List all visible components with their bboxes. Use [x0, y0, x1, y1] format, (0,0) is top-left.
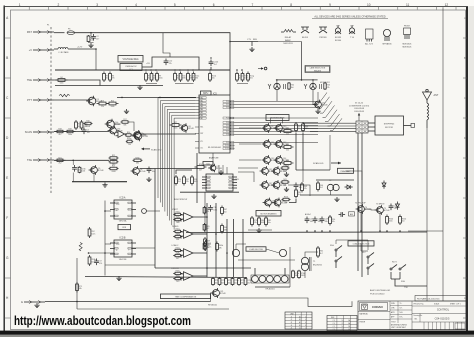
svg-text:11: 11 — [406, 3, 410, 7]
resistor R25b — [133, 157, 143, 164]
transistor Q14 — [274, 155, 289, 165]
wire sheet vertical A — [442, 7, 444, 301]
svg-text:47k: 47k — [327, 87, 330, 89]
wire conv feed 2 — [303, 125, 356, 127]
label box motor braking — [256, 211, 281, 217]
resistor R22b — [109, 159, 119, 166]
svg-text:A B A C: A B A C — [305, 213, 312, 216]
bias box — [349, 212, 355, 216]
svg-text:4: 4 — [305, 319, 306, 321]
resistor R11g — [247, 72, 254, 83]
wire relay feed vertical — [301, 42, 303, 80]
svg-text:S1C: S1C — [362, 252, 366, 254]
wire ic2 wiring2 — [105, 210, 111, 212]
transistor Q17b — [263, 198, 278, 208]
wire bottom long wire — [238, 259, 295, 261]
svg-text:SBL: SBL — [200, 127, 203, 129]
transistor T5 — [375, 205, 390, 215]
wire res bank bottom tie2 — [175, 83, 194, 85]
relay feed dots — [276, 79, 278, 81]
wire conv to stepper 1 — [368, 122, 375, 124]
wire antenna feed vertical — [426, 128, 428, 301]
resistor R5 — [103, 72, 109, 83]
svg-text:2k2: 2k2 — [59, 163, 62, 165]
resistor R33 — [324, 82, 330, 90]
resistor R14 — [107, 100, 119, 108]
svg-text:47k: 47k — [304, 188, 307, 190]
svg-text:BC640: BC640 — [335, 40, 342, 42]
ground G1 — [88, 43, 93, 48]
wire rf wires2 — [284, 268, 286, 275]
wire peak rail bot — [300, 194, 352, 196]
svg-text:LOADC: LOADC — [172, 244, 179, 247]
label box voltage reg — [118, 56, 143, 63]
svg-text:2k2: 2k2 — [214, 64, 217, 66]
wire conv feed 3 — [303, 128, 356, 130]
svg-text:UNIT 9 B/DIP ANT: UNIT 9 B/DIP ANT — [391, 326, 407, 329]
wire rf wires — [254, 268, 256, 275]
resistor R70 — [212, 277, 218, 285]
op-amp U2c — [181, 249, 196, 258]
resistor R36 — [282, 160, 294, 168]
svg-text:R60a: R60a — [176, 212, 180, 214]
svg-text:ASSY/STAT W: ASSY/STAT W — [174, 198, 187, 201]
resistor R46 — [317, 181, 323, 192]
wire relay A drop up — [276, 80, 278, 83]
wire vreg feed vert — [163, 33, 170, 57]
svg-text:T5 BF459: T5 BF459 — [376, 204, 384, 206]
relay RL1 cap — [283, 84, 285, 89]
lane selection relays box — [305, 66, 330, 73]
svg-text:MJE350/1: MJE350/1 — [402, 47, 412, 49]
svg-text:R13: R13 — [101, 100, 104, 102]
svg-text:CONTROL: CONTROL — [437, 309, 450, 312]
wire lower run — [77, 308, 229, 310]
wire +V row — [54, 48, 58, 50]
svg-text:1k0: 1k0 — [234, 282, 237, 284]
svg-text:330R: 330R — [301, 275, 306, 277]
wire SCAN row — [54, 131, 109, 133]
IC U5 MPU body — [195, 95, 235, 153]
svg-text:R61a: R61a — [176, 229, 180, 231]
transistor Q8 — [179, 123, 193, 132]
svg-text:R21: R21 — [58, 157, 61, 159]
op-amp U2a — [181, 213, 196, 222]
svg-text:R18: R18 — [58, 129, 61, 131]
svg-text:100k: 100k — [261, 222, 265, 224]
label box compensation — [161, 294, 211, 299]
diode D9 — [396, 202, 400, 210]
wire conv to stepper 3 — [368, 130, 375, 132]
connector boundary dashed line — [50, 27, 52, 193]
terminal SCAN (P5) — [25, 130, 54, 134]
wire relay A drop — [276, 90, 278, 101]
IC5 tag — [201, 91, 212, 95]
svg-text:RF-B0001: RF-B0001 — [265, 289, 275, 291]
svg-text:J4: J4 — [290, 325, 292, 327]
resistor R69 — [204, 237, 212, 247]
svg-text:A06: A06 — [350, 213, 353, 216]
transistor Q21 — [211, 288, 226, 298]
terminal PTT (P4) — [27, 98, 54, 102]
resistor R10 — [174, 72, 180, 83]
wire TXE row — [54, 159, 109, 161]
svg-text:100n: 100n — [91, 233, 95, 235]
transistor Q4c — [132, 131, 148, 142]
resistor R61a — [173, 229, 182, 236]
ground G5 — [218, 170, 223, 175]
wire ic3 top wires — [176, 170, 192, 174]
wire lower bus — [186, 231, 427, 234]
svg-text:START: START — [172, 208, 179, 211]
wire RST row — [54, 32, 65, 34]
svg-text:LOAD DETECTION: LOAD DETECTION — [353, 242, 370, 245]
wire braking wires — [289, 199, 296, 203]
svg-text:RLY3: RLY3 — [392, 262, 397, 264]
wire motor link 1 — [270, 118, 282, 123]
resistor R65 — [203, 223, 209, 232]
transistor Q12 — [274, 139, 289, 149]
svg-text:6: 6 — [305, 322, 306, 324]
assy text — [370, 289, 391, 296]
ground G6 — [249, 47, 254, 52]
resistor R19 — [65, 129, 76, 136]
svg-text:LANE SELECTION: LANE SELECTION — [310, 67, 326, 70]
svg-text:330R: 330R — [207, 243, 212, 245]
svg-text:R19: R19 — [68, 129, 71, 131]
svg-text:R17: R17 — [123, 119, 126, 121]
svg-text:10k: 10k — [285, 202, 288, 204]
svg-text:PEAK AMP: PEAK AMP — [340, 170, 351, 173]
wire motor base 1 — [239, 127, 261, 129]
converter connector — [356, 121, 368, 133]
transistor Q11 — [262, 139, 277, 149]
capacitor C11 — [294, 183, 302, 190]
bus diagonal fan — [315, 93, 342, 131]
svg-text:PC8: PC8 — [226, 134, 229, 136]
dot77 — [76, 301, 78, 303]
resistor R58 — [191, 175, 198, 186]
svg-text:100k: 100k — [389, 221, 393, 223]
wire motor base 2 — [239, 143, 261, 145]
resistor R39 — [281, 165, 290, 172]
svg-text:330R: 330R — [86, 126, 91, 128]
svg-text:MPSA906: MPSA906 — [382, 43, 392, 46]
switch S1C — [362, 252, 374, 264]
svg-text:LM38LAZ-5V: LM38LAZ-5V — [125, 65, 137, 68]
svg-text:MATERIAL: MATERIAL — [360, 313, 368, 316]
svg-text:5: 5 — [174, 3, 176, 7]
resistor R52 — [88, 227, 95, 238]
svg-text:TUNED: TUNED — [172, 226, 179, 228]
IC IC2/A — [110, 200, 136, 219]
svg-text:68k: 68k — [284, 184, 287, 186]
transistor Q18b — [272, 198, 287, 208]
svg-text:R60b: R60b — [176, 217, 180, 219]
svg-text:B: B — [464, 56, 466, 60]
svg-text:R16: R16 — [86, 121, 89, 123]
wire mid cluster wires2 — [130, 122, 135, 131]
svg-text:ANA/TUNE: ANA/TUNE — [209, 157, 219, 160]
wire comp0 out — [196, 216, 208, 218]
wire CTL to feed — [258, 41, 302, 43]
resistor R16 — [84, 121, 93, 128]
transistor Q22 — [313, 100, 328, 110]
resistor R8 — [150, 72, 156, 83]
wire motor base 3 — [239, 159, 261, 161]
wire txe gnd rail — [72, 181, 127, 183]
transistor Q5b — [108, 126, 123, 136]
svg-text:E: E — [464, 176, 466, 180]
resistor R63a — [173, 271, 182, 278]
wire txe drop3 — [93, 173, 95, 181]
svg-text:22k: 22k — [254, 222, 257, 224]
antenna symbol — [423, 89, 439, 103]
wire txe vert — [154, 169, 156, 269]
transformer T1 — [301, 257, 321, 271]
legend transistor BC640 — [349, 26, 355, 40]
svg-text:10n: 10n — [224, 211, 227, 213]
resistor R50 — [329, 215, 335, 226]
transistor Q24 — [279, 249, 286, 256]
comp dots — [206, 216, 208, 218]
svg-text:C4: C4 — [333, 323, 335, 325]
transistor Q17 — [260, 180, 275, 190]
wire switch feeds — [336, 240, 368, 250]
svg-text:7: 7 — [252, 3, 254, 7]
svg-text:ALL IC'S: ALL IC'S — [365, 43, 373, 46]
svg-text:MPU: MPU — [203, 93, 208, 95]
capacitor C2 — [91, 34, 99, 41]
svg-text:100k: 100k — [81, 171, 85, 173]
resistor R37 — [295, 122, 301, 133]
svg-text:PC9: PC9 — [226, 142, 229, 144]
wire braking feed 1 — [238, 167, 258, 169]
svg-text:CONVERTER C/2 B#4: CONVERTER C/2 B#4 — [349, 105, 370, 107]
wire braking out — [288, 185, 310, 196]
svg-text:FRONT: FRONT — [404, 26, 411, 28]
svg-text:1: 1 — [19, 3, 21, 7]
capacitor C30 — [208, 205, 217, 212]
svg-text:+5V: +5V — [146, 63, 150, 65]
svg-text:E: E — [21, 300, 23, 304]
svg-text:CODAN: CODAN — [372, 305, 383, 309]
ground G13 — [315, 109, 320, 114]
legend underline — [312, 18, 388, 20]
resistor R11e — [236, 72, 243, 83]
svg-text:SCAN: SCAN — [25, 130, 32, 134]
wire C10 dn — [210, 67, 212, 70]
resistor R43 — [301, 182, 307, 193]
transistor Q5c — [132, 130, 147, 140]
svg-text:F: F — [6, 216, 8, 220]
wire txe drop2 — [72, 173, 74, 182]
wire IC3 rail drop — [204, 192, 206, 232]
resistor R6 — [109, 72, 115, 83]
wire drv join — [365, 209, 377, 210]
svg-text:PC2: PC2 — [226, 107, 229, 109]
svg-text:10k: 10k — [215, 282, 218, 284]
wire comp1 out — [196, 233, 208, 235]
svg-text:PC10: PC10 — [225, 145, 229, 147]
svg-text:G: G — [464, 256, 466, 260]
svg-text:T4 PRL/BUF: T4 PRL/BUF — [355, 203, 367, 205]
resistor R81 — [265, 216, 271, 227]
svg-text:L/439A: L/439A — [176, 279, 183, 282]
wire ic2b out right — [132, 247, 155, 249]
transistor Q16 — [271, 166, 286, 176]
svg-text:H: H — [464, 296, 466, 300]
svg-text:5082-2811: 5082-2811 — [283, 43, 293, 45]
wire rst branch — [90, 33, 92, 36]
wire ic2 wiring — [88, 252, 114, 254]
wire decode wires — [236, 244, 246, 249]
svg-text:PTT: PTT — [27, 98, 32, 102]
svg-text:47k: 47k — [241, 282, 244, 284]
svg-text:2k2: 2k2 — [247, 282, 250, 284]
wire relay B drop — [312, 90, 314, 105]
wire comp2 out — [196, 252, 208, 254]
svg-text:+V: +V — [29, 48, 33, 52]
svg-text:2k2: 2k2 — [286, 133, 289, 135]
svg-text:BC548: BC548 — [365, 209, 371, 211]
ground G9 — [116, 276, 121, 281]
svg-text:10k: 10k — [90, 40, 93, 42]
label box peak amp — [338, 168, 354, 173]
ground G4 — [146, 177, 151, 182]
bottom scan margin — [0, 335, 474, 337]
ground G7 — [334, 197, 339, 202]
svg-text:R42b: R42b — [284, 197, 288, 199]
svg-text:BC639: BC639 — [335, 37, 342, 39]
transistor Q10 — [274, 123, 289, 133]
resistor R62 — [317, 246, 323, 258]
svg-text:PC5: PC5 — [226, 125, 229, 127]
inductor L1 — [58, 48, 61, 49]
transistor Q3 — [86, 96, 102, 107]
wire conv feed 1 — [303, 122, 356, 124]
svg-text:R20: R20 — [127, 132, 130, 134]
svg-text:VOLTAGE REG: VOLTAGE REG — [122, 58, 138, 61]
capacitor C24 — [339, 212, 346, 217]
svg-text:1k0: 1k0 — [250, 78, 253, 80]
wire comp vert 2 — [196, 153, 198, 203]
wire C10 wire — [210, 57, 212, 59]
label box motor drive — [266, 115, 289, 121]
svg-text:1k0: 1k0 — [87, 132, 90, 134]
op-amp U2b — [181, 230, 196, 239]
transistor Q18 — [271, 180, 286, 190]
svg-text:L1 BY-PASS: L1 BY-PASS — [59, 51, 70, 54]
bus dots — [306, 230, 308, 232]
wire decode wires2 — [266, 249, 279, 253]
wire TNE row — [54, 80, 100, 86]
svg-text:BC548: BC548 — [98, 170, 104, 172]
svg-text:SCAN LED: SCAN LED — [313, 162, 324, 165]
resistor R11d — [209, 72, 216, 83]
svg-text:ANT: ANT — [434, 94, 439, 97]
svg-text:1k0: 1k0 — [91, 261, 94, 263]
svg-text:BN-3R256: BN-3R256 — [313, 265, 322, 267]
wire conv down wire 1 — [357, 133, 359, 271]
wire txe drop1 — [72, 160, 74, 165]
transistor Q9 — [262, 123, 277, 133]
wire relay B drop up — [312, 80, 314, 83]
svg-text:RST: RST — [200, 133, 203, 135]
svg-text:STEPPING: STEPPING — [384, 124, 395, 126]
wire bottom bus 1 — [155, 267, 251, 269]
wire motor out — [296, 169, 330, 171]
resistor R60a — [173, 212, 182, 219]
svg-text:47k: 47k — [99, 263, 102, 265]
svg-text:2k2: 2k2 — [178, 181, 181, 183]
capacitor C6 — [72, 165, 80, 172]
resistor R72c — [238, 277, 245, 285]
wire t1 wiring — [305, 252, 318, 257]
resistor R20 — [125, 132, 132, 139]
wire conv down wire 2 — [361, 133, 363, 277]
resistor R72 — [225, 277, 232, 285]
svg-text:MOTOR: MOTOR — [385, 127, 393, 129]
svg-text:100n: 100n — [68, 134, 72, 136]
svg-text:4k7: 4k7 — [221, 282, 224, 284]
svg-text:J1: J1 — [290, 316, 292, 318]
svg-text:N.B.: N.B. — [400, 312, 404, 314]
svg-text:10k: 10k — [152, 171, 155, 173]
resistor R83 — [204, 240, 211, 251]
resistor R18 — [55, 129, 66, 136]
transistor Q15 — [260, 166, 275, 176]
IC2/A inner — [116, 204, 130, 212]
wire conv feed 4 — [310, 130, 356, 132]
wire peak rail top — [316, 179, 354, 181]
svg-text:B1: B1 — [299, 319, 301, 321]
svg-text:22: 22 — [342, 323, 344, 325]
resistor R42b — [282, 197, 291, 204]
wire +V down to reg — [95, 49, 97, 70]
svg-text:PC11: PC11 — [225, 148, 229, 150]
svg-text:74HC74B: 74HC74B — [119, 259, 128, 261]
svg-text:10n: 10n — [298, 128, 301, 130]
antenna loading coil L1 — [427, 103, 429, 128]
svg-text:RELAYS: RELAYS — [314, 69, 322, 72]
wire 5V rail upper — [55, 69, 230, 71]
resistor R34 — [282, 128, 294, 136]
svg-text:R62a: R62a — [176, 248, 180, 250]
capacitor C10 — [164, 59, 172, 66]
svg-text:C1: C1 — [299, 328, 301, 330]
svg-text:B2: B2 — [299, 325, 301, 327]
link table — [285, 312, 312, 330]
svg-text:C5: C5 — [333, 326, 335, 328]
capacitor C17 — [389, 204, 397, 211]
svg-text:A: A — [464, 16, 466, 20]
svg-text:PCB 07-03010: PCB 07-03010 — [370, 294, 385, 296]
title block — [358, 301, 467, 330]
svg-text:http://www.aboutcodan.blogspot: http://www.aboutcodan.blogspot.com — [14, 314, 191, 328]
RF module coils — [251, 275, 289, 283]
resistor R15 — [75, 120, 81, 130]
resistor R69b — [216, 242, 223, 252]
switch S1D — [367, 264, 374, 276]
wire peak drop1 — [330, 191, 332, 195]
resistor R62b — [173, 253, 182, 260]
svg-text:47k: 47k — [112, 78, 115, 80]
IC6 tag — [203, 162, 213, 166]
wire rf bottom — [255, 286, 290, 288]
terminal E (P8) — [21, 300, 45, 304]
resistor R63b — [173, 276, 182, 283]
